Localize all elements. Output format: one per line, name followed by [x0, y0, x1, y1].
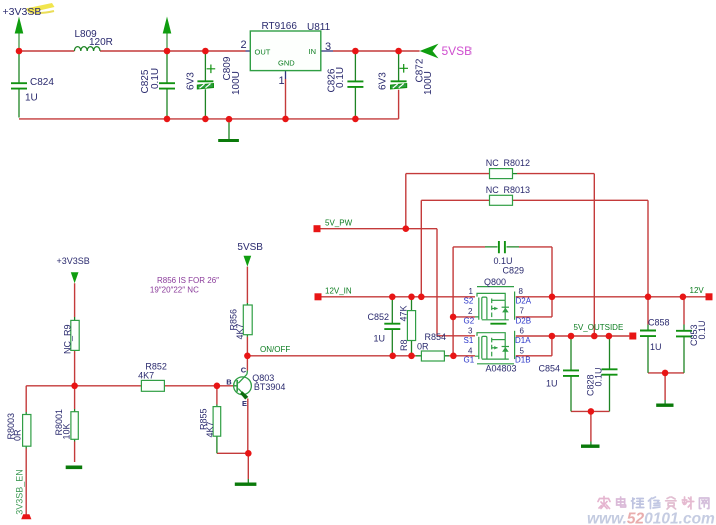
svg-text:0.1U: 0.1U — [697, 320, 707, 339]
svg-text:A04803: A04803 — [486, 364, 517, 374]
svg-text:R8012: R8012 — [504, 158, 531, 168]
svg-text:ON/OFF: ON/OFF — [260, 345, 290, 354]
svg-text:12V_IN: 12V_IN — [325, 286, 352, 295]
svg-text:120R: 120R — [89, 37, 113, 48]
svg-text:3: 3 — [325, 41, 331, 53]
svg-text:Q800: Q800 — [484, 277, 506, 287]
svg-text:4K7: 4K7 — [205, 421, 215, 437]
svg-text:NC: NC — [486, 185, 499, 195]
svg-text:R854: R854 — [425, 332, 447, 342]
svg-text:C858: C858 — [648, 318, 670, 328]
svg-text:19″20″22″ NC: 19″20″22″ NC — [150, 285, 199, 294]
svg-text:C854: C854 — [539, 364, 561, 374]
svg-text:2: 2 — [241, 39, 247, 51]
svg-text:1: 1 — [279, 75, 285, 87]
svg-text:G1: G1 — [464, 356, 475, 365]
svg-text:6: 6 — [520, 326, 525, 335]
svg-text:4K7: 4K7 — [138, 371, 154, 381]
svg-text:5V_PW: 5V_PW — [325, 219, 353, 228]
svg-text:1U: 1U — [374, 334, 386, 344]
svg-text:0.1U: 0.1U — [335, 67, 346, 88]
svg-text:1U: 1U — [25, 93, 38, 104]
svg-text:8: 8 — [519, 287, 524, 296]
svg-text:5VSB: 5VSB — [442, 44, 473, 58]
svg-text:3V3SB_EN: 3V3SB_EN — [14, 469, 24, 515]
svg-text:6V3: 6V3 — [185, 72, 196, 90]
svg-text:D1A: D1A — [515, 336, 531, 345]
svg-text:IN: IN — [309, 47, 317, 56]
svg-text:C: C — [241, 366, 247, 375]
svg-text:0R: 0R — [13, 429, 23, 441]
svg-text:GND: GND — [278, 58, 295, 67]
svg-text:D1B: D1B — [515, 356, 531, 365]
svg-text:0.1U: 0.1U — [594, 367, 604, 386]
svg-text:www.520101.com: www.520101.com — [587, 511, 715, 525]
svg-text:1: 1 — [469, 287, 474, 296]
svg-text:C824: C824 — [30, 77, 54, 88]
svg-text:5: 5 — [520, 346, 525, 355]
svg-text:1U: 1U — [546, 379, 558, 389]
svg-text:10K: 10K — [62, 423, 72, 439]
svg-text:R8013: R8013 — [504, 185, 531, 195]
svg-text:0.1U: 0.1U — [494, 256, 513, 266]
svg-text:7: 7 — [520, 307, 525, 316]
svg-text:4: 4 — [468, 346, 473, 355]
svg-text:G2: G2 — [464, 317, 475, 326]
svg-text:C829: C829 — [503, 266, 525, 276]
svg-text:5VSB: 5VSB — [237, 242, 263, 253]
svg-text:D2B: D2B — [516, 317, 532, 326]
svg-text:2: 2 — [468, 307, 473, 316]
svg-text:NC_R9: NC_R9 — [63, 324, 73, 354]
svg-text:NC: NC — [486, 158, 499, 168]
svg-text:100U: 100U — [423, 71, 434, 95]
svg-text:4K7: 4K7 — [235, 323, 245, 339]
svg-text:R856 IS FOR 26″: R856 IS FOR 26″ — [157, 276, 219, 285]
svg-text:+3V3SB: +3V3SB — [57, 256, 90, 266]
svg-text:D2A: D2A — [516, 297, 532, 306]
svg-text:OUT: OUT — [255, 48, 271, 57]
svg-text:B: B — [226, 377, 232, 386]
svg-text:E: E — [242, 399, 247, 408]
svg-text:RT9166: RT9166 — [262, 21, 298, 32]
svg-text:U811: U811 — [307, 22, 331, 33]
svg-text:100U: 100U — [231, 71, 242, 95]
svg-text:0R: 0R — [417, 342, 429, 352]
svg-text:0.1U: 0.1U — [150, 68, 161, 89]
svg-text:47K: 47K — [398, 305, 408, 321]
svg-text:12V: 12V — [690, 286, 705, 295]
svg-text:5V_OUTSIDE: 5V_OUTSIDE — [574, 323, 624, 332]
svg-text:C852: C852 — [368, 312, 390, 322]
svg-text:3: 3 — [468, 326, 473, 335]
svg-text:R8: R8 — [399, 339, 409, 351]
svg-text:1U: 1U — [650, 342, 662, 352]
svg-text:6V3: 6V3 — [378, 72, 389, 90]
svg-text:BT3904: BT3904 — [254, 382, 286, 392]
svg-text:+3V3SB: +3V3SB — [3, 6, 42, 18]
svg-text:S1: S1 — [464, 336, 474, 345]
svg-text:S2: S2 — [464, 297, 474, 306]
